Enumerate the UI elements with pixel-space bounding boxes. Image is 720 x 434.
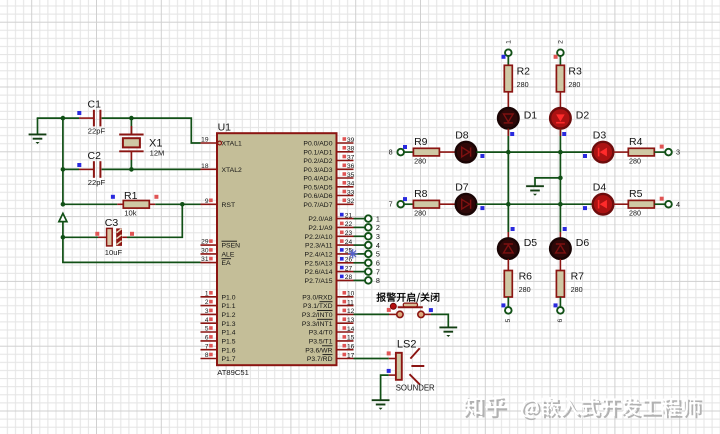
- pin 28 P2.7/A15 (right stub): [305, 274, 354, 285]
- svg-text:13: 13: [347, 317, 355, 324]
- svg-text:35: 35: [347, 172, 355, 179]
- svg-text:R5: R5: [629, 188, 643, 200]
- wire P2.4 to terminal 5: [354, 253, 365, 255]
- svg-text:7: 7: [389, 200, 393, 209]
- pin 39 P0.0/AD0 (right stub): [303, 137, 354, 148]
- svg-text:4: 4: [676, 200, 680, 209]
- svg-text:7: 7: [205, 343, 209, 350]
- LED D5 (off): [498, 237, 537, 259]
- pin 33 P0.6/AD6 (right stub): [303, 189, 354, 200]
- terminal 8 (P2.7): [365, 276, 380, 285]
- wire D2 to row1: [559, 129, 561, 153]
- svg-text:5: 5: [376, 250, 380, 259]
- svg-text:280: 280: [629, 157, 641, 166]
- button label (alarm on/off): [377, 292, 440, 302]
- svg-text:P3.4/T0: P3.4/T0: [309, 330, 333, 337]
- svg-text:39: 39: [347, 137, 355, 144]
- terminal 6 (bottom right rail): [554, 303, 565, 322]
- pin 26 P2.5/A13 (right stub): [305, 257, 354, 268]
- svg-text:8: 8: [376, 276, 380, 285]
- lead R3 to D2: [559, 92, 561, 108]
- resistor R1 10k: [111, 190, 158, 217]
- svg-text:P2.7/A15: P2.7/A15: [305, 278, 333, 285]
- resistor R5 280: [628, 188, 654, 218]
- svg-text:D5: D5: [524, 237, 538, 249]
- svg-text:P3.2/INT0: P3.2/INT0: [302, 312, 333, 319]
- svg-text:3: 3: [205, 308, 209, 315]
- svg-text:4: 4: [205, 317, 209, 324]
- lead D6 to R7: [559, 259, 561, 271]
- svg-text:22pF: 22pF: [88, 178, 106, 187]
- junction RST/ground vertical: [61, 202, 66, 207]
- svg-text:P1.1: P1.1: [222, 303, 236, 310]
- wire terminal1 to R2: [507, 56, 509, 65]
- ground G1 (top-left): [29, 118, 47, 144]
- pin 5 P1.4 (left stub): [201, 326, 236, 337]
- svg-text:22pF: 22pF: [88, 127, 106, 136]
- svg-text:4: 4: [376, 241, 380, 250]
- svg-text:P2.5/A13: P2.5/A13: [305, 260, 333, 267]
- svg-text:PSEN: PSEN: [222, 243, 241, 250]
- wire RST net (vertical to R1 to chip pin 9): [63, 203, 201, 205]
- pin 19 XTAL1 (left stub): [201, 137, 242, 148]
- svg-text:P1.0: P1.0: [222, 294, 236, 301]
- svg-text:280: 280: [571, 285, 583, 294]
- terminal 4 (P2.3): [365, 241, 380, 250]
- svg-text:XTAL2: XTAL2: [222, 167, 242, 174]
- ground G3 (button): [439, 327, 457, 337]
- svg-text:P0.1/AD1: P0.1/AD1: [303, 149, 332, 156]
- svg-text:1: 1: [376, 214, 380, 223]
- resistor R2 280: [504, 65, 530, 92]
- marker D2: [562, 132, 566, 136]
- svg-text:37: 37: [347, 154, 355, 161]
- junction C3/VCC vertical: [61, 235, 66, 240]
- svg-text:280: 280: [414, 157, 426, 166]
- svg-text:280: 280: [517, 80, 529, 89]
- LED D4 (lit): [593, 182, 614, 215]
- svg-text:15: 15: [347, 335, 355, 342]
- svg-text:P2.0/A8: P2.0/A8: [308, 216, 332, 223]
- lead R8 to D7: [439, 203, 455, 205]
- pin 11 P3.1/TXD (right stub): [303, 299, 354, 310]
- cursor artifact near pin 25: [348, 249, 358, 259]
- svg-text:P1.3: P1.3: [222, 321, 236, 328]
- svg-text:16: 16: [347, 344, 355, 351]
- junction XTAL1/ground vertical: [61, 116, 66, 121]
- svg-text:D1: D1: [524, 110, 538, 122]
- wire EA net (VCC vertical to chip pin 31): [63, 237, 201, 262]
- wire terminal2 to R3: [559, 56, 561, 65]
- svg-text:EA: EA: [222, 260, 232, 267]
- terminal 3 (row1 right): [660, 145, 680, 157]
- terminal 6 (P2.5): [365, 259, 380, 268]
- terminal 5 (P2.4): [365, 250, 380, 259]
- pin 9 RST (left stub): [201, 198, 236, 209]
- svg-text:D3: D3: [593, 130, 607, 142]
- svg-text:P1.7: P1.7: [222, 356, 236, 363]
- pin 31 EA (left stub): [201, 256, 232, 267]
- svg-text:R4: R4: [629, 136, 643, 148]
- svg-text:14: 14: [347, 326, 355, 333]
- svg-text:C3: C3: [105, 217, 119, 229]
- pin 14 P3.4/T0 (right stub): [309, 326, 355, 337]
- svg-text:34: 34: [347, 181, 355, 188]
- power terminal VCC (up arrow): [59, 213, 67, 237]
- svg-text:C2: C2: [88, 150, 102, 162]
- pin 25 P2.4/A12 (right stub): [305, 248, 354, 259]
- pin 4 P1.3 (left stub): [201, 317, 236, 328]
- capacitor C2: [77, 150, 105, 187]
- svg-text:27: 27: [345, 265, 353, 272]
- pin 19 clock circle on XTAL1: [218, 141, 222, 145]
- pin 2 P1.1 (left stub): [201, 299, 236, 310]
- lead D4 to R5: [613, 203, 628, 205]
- svg-text:P3.3/INT1: P3.3/INT1: [302, 321, 333, 328]
- svg-text:P0.5/AD5: P0.5/AD5: [303, 184, 332, 191]
- svg-text:30: 30: [201, 248, 209, 255]
- svg-text:P1.2: P1.2: [222, 312, 236, 319]
- svg-text:P2.2/A10: P2.2/A10: [305, 234, 333, 241]
- pin 38 P0.1/AD1 (right stub): [303, 146, 354, 157]
- wire ground vertical (C1/C2/R1 common): [62, 118, 64, 204]
- junction XTAL2/crystal: [129, 167, 134, 172]
- microcontroller U1 AT89C51: [217, 133, 337, 365]
- marker D3: [583, 154, 587, 158]
- svg-text:P0.6/AD6: P0.6/AD6: [303, 193, 332, 200]
- svg-text:36: 36: [347, 163, 355, 170]
- pin 22 P2.1/A9 (right stub): [308, 221, 353, 232]
- svg-text:P3.1/TXD: P3.1/TXD: [303, 303, 333, 310]
- svg-text:12M: 12M: [150, 149, 165, 158]
- wire row2 (D7 to D4): [476, 203, 592, 205]
- svg-text:280: 280: [568, 80, 580, 89]
- pin 27 P2.6/A14 (right stub): [305, 265, 354, 276]
- pin 17 P3.7/RD (right stub): [307, 352, 355, 363]
- svg-text:P0.4/AD4: P0.4/AD4: [303, 176, 332, 183]
- junction row1/left rail: [506, 150, 511, 155]
- svg-text:P3.6/WR: P3.6/WR: [305, 347, 332, 354]
- LED D8 (off): [455, 130, 476, 163]
- svg-text:P2.4/A12: P2.4/A12: [305, 252, 333, 259]
- svg-text:D8: D8: [455, 130, 469, 142]
- lead sounder bottom pin: [389, 374, 396, 376]
- wire D1 to row1: [507, 129, 509, 153]
- pin 18 XTAL2 (left stub): [201, 163, 242, 174]
- svg-text:R3: R3: [568, 65, 582, 77]
- svg-text:3: 3: [376, 232, 380, 241]
- svg-text:P1.4: P1.4: [222, 330, 236, 337]
- svg-text:P3.5/T1: P3.5/T1: [309, 339, 333, 346]
- wire XTAL1 net (ground to C1 to X1 top to chip pin 19): [37, 118, 201, 143]
- svg-text:1: 1: [505, 40, 512, 44]
- watermark zhihu: [465, 398, 507, 418]
- svg-text:33: 33: [347, 189, 355, 196]
- pin 34 P0.5/AD5 (right stub): [303, 181, 354, 192]
- terminal 8 (row1 left): [389, 145, 407, 157]
- resistor R9 280: [413, 136, 439, 166]
- lead D5 to R6: [507, 259, 509, 271]
- wire R5 to terminal4: [654, 203, 665, 205]
- pin 24 P2.3/A11 (right stub): [305, 239, 353, 250]
- wire left rail row1 to row2: [507, 152, 509, 204]
- svg-text:19: 19: [201, 137, 209, 144]
- svg-text:P1.6: P1.6: [222, 347, 236, 354]
- svg-text:2: 2: [558, 40, 565, 44]
- LED D2 (lit): [550, 108, 589, 129]
- wire row1 (D8 to D3): [476, 151, 592, 153]
- sounder LS2: [387, 339, 435, 393]
- junction row1/right rail: [558, 150, 563, 155]
- wire R6 to terminal5: [507, 297, 509, 307]
- pin 10 P3.0/RXD (right stub): [302, 291, 354, 302]
- svg-text:10: 10: [347, 291, 355, 298]
- wire terminal7 to R8: [404, 203, 413, 205]
- wire terminal8 to R9: [404, 151, 413, 153]
- pin 3 P1.2 (left stub): [201, 308, 236, 319]
- svg-text:280: 280: [519, 285, 531, 294]
- svg-text:2: 2: [376, 223, 380, 232]
- pin 16 P3.6/WR (right stub): [305, 344, 354, 355]
- svg-text:22: 22: [345, 221, 353, 228]
- wire XTAL2 net (vertical to C2 to X1 bottom to chip pin 18): [63, 168, 201, 170]
- junction XTAL1/crystal: [129, 116, 134, 121]
- wire button to ground: [431, 314, 448, 327]
- svg-text:P3.0/RXD: P3.0/RXD: [302, 294, 332, 301]
- svg-text:18: 18: [201, 163, 209, 170]
- svg-text:10uF: 10uF: [105, 248, 123, 257]
- pin 37 P0.2/AD2 (right stub): [303, 154, 354, 165]
- LED D1 (off): [498, 108, 537, 129]
- wire P2.6 to terminal 7: [354, 271, 365, 273]
- junction XTAL2/ground vertical: [61, 167, 66, 172]
- ground G4 (sounder): [372, 400, 390, 410]
- svg-text:P3.7/RD: P3.7/RD: [307, 356, 333, 363]
- pin 36 P0.3/AD3 (right stub): [303, 163, 354, 174]
- svg-text:38: 38: [347, 146, 355, 153]
- marker D6: [563, 227, 567, 231]
- svg-text:6: 6: [557, 319, 564, 323]
- pin 7 P1.6 (left stub): [201, 343, 236, 354]
- resistor R8 280: [413, 188, 439, 218]
- svg-text:32: 32: [347, 198, 355, 205]
- terminal 7 (P2.6): [365, 267, 380, 276]
- resistor R3 280: [556, 65, 582, 92]
- LED D3 (lit): [593, 130, 614, 163]
- svg-text:9: 9: [205, 198, 209, 205]
- wire P3.2 to button: [354, 313, 390, 315]
- terminal 1 (P2.0): [365, 214, 380, 223]
- lead R9 to D8: [439, 151, 455, 153]
- svg-text:P2.1/A9: P2.1/A9: [308, 225, 332, 232]
- lead R2 to D1: [507, 92, 509, 108]
- lead D3 to R4: [613, 151, 628, 153]
- svg-text:8: 8: [389, 148, 393, 157]
- svg-text:P0.7/AD7: P0.7/AD7: [303, 202, 332, 209]
- svg-text:C1: C1: [88, 98, 102, 110]
- resistor R6 280: [504, 271, 532, 298]
- svg-text:1: 1: [205, 290, 209, 297]
- svg-text:D2: D2: [576, 110, 590, 122]
- wire sounder to ground: [381, 375, 389, 400]
- pin 30 ALE (left stub): [201, 248, 235, 259]
- svg-text:P1.5: P1.5: [222, 339, 236, 346]
- wire R7 to terminal6: [559, 297, 561, 307]
- LED D6 (off): [550, 237, 589, 259]
- terminal 2 (P2.1): [365, 223, 380, 232]
- svg-text:6: 6: [376, 259, 380, 268]
- wire P2.0 to terminal 1: [354, 218, 365, 220]
- pin 29 PSEN (left stub): [201, 239, 241, 250]
- junction RST/C3 branch: [180, 202, 185, 207]
- wire right rail row1 to row2: [559, 152, 561, 204]
- junction row2/left rail: [506, 202, 511, 207]
- wire C3 net (VCC vertical to C3 to RST junction): [63, 204, 182, 237]
- svg-text:8: 8: [205, 352, 209, 359]
- svg-text:R2: R2: [517, 65, 531, 77]
- junction ground branch/right rail: [558, 176, 563, 181]
- svg-text:P0.2/AD2: P0.2/AD2: [303, 158, 332, 165]
- terminal 7 (row2 left): [389, 197, 407, 209]
- terminal 5 (bottom left rail): [501, 303, 512, 322]
- svg-text:3: 3: [676, 148, 680, 157]
- pin 15 P3.5/T1 (right stub): [309, 335, 355, 346]
- terminal 1 (top of left rail): [502, 40, 513, 59]
- svg-text:XTAL1: XTAL1: [222, 141, 242, 148]
- pin 23 P2.2/A10 (right stub): [305, 230, 354, 241]
- junction row2/right rail: [558, 202, 563, 207]
- wire P2.7 to terminal 8: [354, 279, 365, 281]
- marker D5: [511, 227, 515, 231]
- marker D4: [583, 206, 587, 210]
- push button (interactive): [387, 303, 433, 317]
- wire P2.1 to terminal 2: [354, 226, 365, 228]
- svg-text:LS2: LS2: [397, 339, 417, 351]
- pin 13 P3.3/INT1 (right stub): [302, 317, 355, 328]
- wire R4 to terminal3: [654, 151, 665, 153]
- marker D1: [510, 132, 514, 136]
- pin 12 P3.2/INT0 (right stub): [302, 308, 355, 319]
- svg-text:6: 6: [205, 335, 209, 342]
- svg-text:26: 26: [345, 257, 353, 264]
- pin 32 P0.7/AD7 (right stub): [303, 198, 354, 209]
- svg-text:11: 11: [347, 299, 354, 306]
- pin 21 P2.0/A8 (right stub): [308, 212, 353, 223]
- terminal 2 (top of right rail): [554, 40, 565, 59]
- wire left rail row2 to D5: [507, 204, 509, 232]
- svg-text:P0.3/AD3: P0.3/AD3: [303, 167, 332, 174]
- svg-text:ALE: ALE: [222, 252, 235, 259]
- terminal 3 (P2.2): [365, 232, 380, 241]
- wire ground branch from right rail: [535, 178, 560, 186]
- svg-text:7: 7: [376, 267, 380, 276]
- svg-text:X1: X1: [149, 137, 162, 149]
- resistor R4 280: [628, 136, 654, 166]
- ground G2 (LED matrix): [526, 186, 544, 196]
- pin 35 P0.4/AD4 (right stub): [303, 172, 354, 183]
- svg-text:R9: R9: [414, 136, 428, 148]
- svg-text:28: 28: [345, 274, 353, 281]
- capacitor C3 10uF (electrolytic): [95, 217, 134, 257]
- lead sounder top pin: [389, 358, 396, 360]
- svg-text:R6: R6: [519, 271, 533, 283]
- svg-text:R1: R1: [124, 190, 138, 202]
- marker D7: [480, 206, 484, 210]
- svg-text:D7: D7: [455, 182, 469, 194]
- svg-text:5: 5: [505, 319, 512, 323]
- svg-text:R8: R8: [414, 188, 428, 200]
- wire P2.2 to terminal 3: [354, 235, 365, 237]
- svg-text:D4: D4: [593, 182, 607, 194]
- svg-text:10k: 10k: [124, 208, 136, 217]
- svg-text:U1: U1: [218, 122, 232, 134]
- svg-text:P2.6/A14: P2.6/A14: [305, 269, 333, 276]
- pin 6 P1.5 (left stub): [201, 335, 236, 346]
- svg-text:280: 280: [629, 209, 641, 218]
- svg-text:SOUNDER: SOUNDER: [396, 383, 435, 392]
- svg-text:23: 23: [345, 230, 353, 237]
- capacitor C1: [77, 98, 105, 135]
- wire P2.5 to terminal 6: [354, 262, 365, 264]
- svg-text:D6: D6: [576, 237, 590, 249]
- wire P3.7 to sounder LS2: [354, 358, 389, 360]
- svg-text:5: 5: [205, 326, 209, 333]
- svg-text:280: 280: [414, 209, 426, 218]
- svg-text:R7: R7: [571, 271, 585, 283]
- pin 1 P1.0 (left stub): [201, 290, 236, 301]
- svg-text:P2.3/A11: P2.3/A11: [305, 243, 333, 250]
- terminal 4 (row2 right): [660, 197, 680, 209]
- svg-text:21: 21: [345, 212, 353, 219]
- crystal X1: [119, 118, 164, 169]
- svg-text:2: 2: [205, 299, 209, 306]
- wire P2.3 to terminal 4: [354, 244, 365, 246]
- svg-text:P0.0/AD0: P0.0/AD0: [303, 141, 332, 148]
- wire right rail row2 to D6: [559, 204, 561, 232]
- pin 8 P1.7 (left stub): [201, 352, 236, 363]
- svg-text:29: 29: [201, 239, 209, 246]
- svg-text:24: 24: [345, 239, 353, 246]
- LED D7 (off): [455, 182, 476, 215]
- svg-text:31: 31: [201, 256, 209, 263]
- svg-text:AT89C51: AT89C51: [217, 368, 249, 377]
- resistor R7 280: [556, 271, 584, 298]
- svg-text:RST: RST: [222, 202, 236, 209]
- marker D8: [480, 154, 484, 158]
